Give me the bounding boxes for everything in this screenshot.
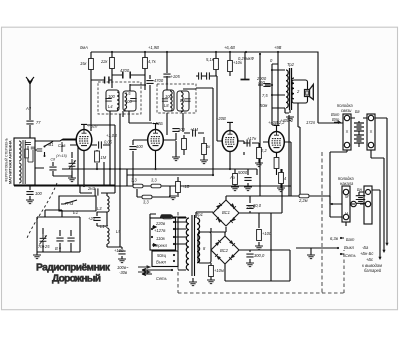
- svg-text:172п: 172п: [306, 120, 316, 125]
- svg-text:Перекл: Перекл: [153, 243, 168, 248]
- svg-text:100: 100: [165, 94, 173, 99]
- svg-text:3,3: 3,3: [143, 200, 149, 205]
- svg-text:+Бс: +Бс: [366, 257, 373, 262]
- svg-text:+9В: +9В: [274, 45, 282, 50]
- svg-text:220в: 220в: [155, 221, 166, 226]
- svg-text:L5: L5: [116, 229, 121, 234]
- svg-text:2,2м: 2,2м: [298, 198, 308, 203]
- svg-text:А?: А?: [25, 106, 32, 111]
- svg-text:+20: +20: [88, 216, 96, 221]
- svg-text:6,3в: 6,3в: [330, 236, 339, 241]
- svg-text:7п+25: 7п+25: [38, 244, 50, 249]
- svg-text:+1В: +1В: [182, 184, 190, 189]
- svg-text:5000: 5000: [238, 170, 248, 175]
- svg-text:110в: 110в: [156, 236, 166, 241]
- svg-text:450: 450: [258, 80, 266, 85]
- svg-text:Бат: Бат: [346, 237, 355, 242]
- svg-text:Выкл: Выкл: [344, 245, 355, 250]
- svg-text:100: 100: [108, 94, 116, 99]
- svg-text:L8: L8: [164, 103, 169, 108]
- svg-text:ВС1: ВС1: [222, 210, 230, 215]
- svg-text:ПЧЗ: ПЧЗ: [65, 201, 74, 206]
- svg-text:100: 100: [35, 191, 43, 196]
- svg-text:(У=15): (У=15): [56, 154, 67, 158]
- svg-text:В1: В1: [49, 142, 54, 147]
- svg-text:22к: 22к: [100, 59, 109, 64]
- svg-text:+100: +100: [114, 248, 124, 253]
- svg-text:Бн: Бн: [357, 187, 363, 192]
- svg-text:Аэ: Аэ: [229, 175, 235, 180]
- svg-text:Выкл: Выкл: [156, 260, 167, 265]
- svg-text:+17н: +17н: [247, 136, 257, 141]
- svg-text:+1,0В: +1,0В: [106, 133, 117, 138]
- svg-text:0мА: 0мА: [80, 45, 88, 50]
- svg-text:+127в: +127в: [154, 228, 166, 233]
- svg-text:2,2: 2,2: [260, 148, 267, 153]
- svg-text:+Бн-Бс: +Бн-Бс: [360, 251, 373, 256]
- svg-text:-Ба: -Ба: [362, 245, 369, 250]
- svg-text:+100: +100: [262, 231, 272, 236]
- svg-text:Бг: Бг: [355, 109, 360, 114]
- svg-text:L3: L3: [97, 206, 102, 211]
- svg-text:+10м: +10м: [214, 268, 224, 273]
- svg-text:+6,4В: +6,4В: [224, 45, 235, 50]
- svg-text:- 520: - 520: [88, 124, 98, 129]
- svg-text:+105: +105: [171, 74, 181, 79]
- svg-text:Дорожный: Дорожный: [52, 274, 101, 285]
- svg-text:100: 100: [178, 127, 186, 132]
- svg-text:батарей: батарей: [364, 268, 382, 273]
- svg-text:50гц: 50гц: [157, 253, 167, 258]
- svg-text:L1-2: L1-2: [100, 224, 109, 229]
- svg-text:ВС2: ВС2: [220, 248, 229, 253]
- svg-text:100: 100: [125, 99, 133, 104]
- svg-text:50м: 50м: [260, 103, 268, 108]
- svg-text:4700: 4700: [120, 68, 130, 73]
- svg-text:Е1: Е1: [73, 210, 78, 215]
- svg-text:МАГНИТНАЯ АНТЕННА: МАГНИТНАЯ АНТЕННА: [9, 140, 13, 184]
- svg-text:L5: L5: [126, 91, 131, 96]
- svg-text:0,05: 0,05: [104, 140, 113, 145]
- svg-text:С8: С8: [51, 158, 56, 162]
- svg-text:Впр: Впр: [332, 117, 340, 122]
- svg-text:Сеть: Сеть: [345, 253, 356, 258]
- svg-text:4,7к: 4,7к: [148, 59, 157, 64]
- svg-text:2н3: 2н3: [87, 186, 96, 191]
- svg-text:1М: 1М: [101, 155, 107, 160]
- svg-text:+1,9В: +1,9В: [148, 45, 159, 50]
- svg-text:Тр2: Тр2: [287, 62, 295, 67]
- svg-text:Тр1: Тр1: [196, 212, 203, 217]
- svg-text:3,3: 3,3: [131, 178, 137, 183]
- svg-text:L4: L4: [108, 104, 113, 109]
- svg-text:+ 52Б: + 52Б: [152, 121, 163, 126]
- svg-text:300,0: 300,0: [254, 253, 265, 258]
- svg-text:-30в: -30в: [119, 270, 128, 275]
- svg-text:77: 77: [36, 120, 41, 125]
- svg-text:Радиоприёмник: Радиоприёмник: [36, 263, 111, 274]
- svg-text:L9: L9: [180, 98, 185, 103]
- svg-text:накала: накала: [340, 181, 354, 186]
- svg-text:связи: связи: [341, 108, 352, 113]
- svg-text:Сеть: Сеть: [156, 276, 167, 281]
- svg-text:Н: Н: [345, 211, 348, 216]
- svg-text:15к: 15к: [80, 61, 88, 66]
- svg-text:Сав: Сав: [58, 143, 66, 148]
- svg-text:+20В: +20В: [216, 116, 226, 121]
- svg-text:3,3: 3,3: [151, 178, 157, 183]
- svg-text:4700: 4700: [154, 78, 164, 83]
- svg-text:+40В 2: +40В 2: [280, 118, 294, 123]
- svg-text:7,5: 7,5: [262, 93, 268, 98]
- svg-text:100: 100: [136, 144, 144, 149]
- svg-text:5,1к: 5,1к: [206, 57, 215, 62]
- svg-text:М: М: [345, 194, 349, 199]
- svg-text:ФЕРРИТОВЫЙ СТЕРЖЕНЬ: ФЕРРИТОВЫЙ СТЕРЖЕНЬ: [5, 137, 9, 182]
- svg-text:В ч: В ч: [55, 246, 62, 251]
- svg-text:20,0: 20,0: [252, 203, 262, 208]
- svg-text:0,25мкФ: 0,25мкФ: [238, 56, 255, 61]
- svg-text:+1М: +1М: [190, 127, 199, 132]
